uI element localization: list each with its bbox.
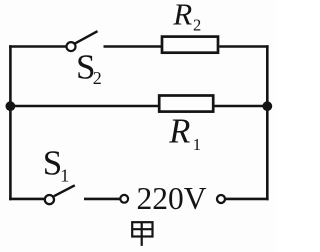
switch S1 lever [54,185,75,196]
source right terminal [217,195,225,203]
label jia (caption) drawn strokes [132,222,152,246]
node right junction [262,101,272,111]
wire top left segment [9,45,66,48]
wire bottom left segment [9,198,45,201]
resistor R1 box [159,96,213,112]
wire right vertical [266,45,269,200]
wire middle right segment [214,105,269,108]
wire top right segment [219,45,268,48]
switch S2 pivot circle [67,42,76,51]
source left terminal [120,195,128,203]
svg-text:2: 2 [193,15,201,34]
svg-text:2: 2 [93,68,102,88]
switch S1 pivot circle [45,195,54,204]
svg-text:1: 1 [193,135,202,154]
svg-text:1: 1 [60,165,69,185]
node left junction [5,101,15,111]
svg-text:R: R [168,113,190,151]
wire middle left segment [9,105,158,108]
svg-text:220V: 220V [137,181,207,216]
wire bottom right segment [225,198,268,201]
wire left vertical [9,45,12,200]
switch S2 lever [75,31,98,44]
svg-text:R: R [172,0,192,32]
wire bottom middle segment [84,198,120,201]
resistor R2 box [162,37,218,53]
wire top middle segment [104,45,162,48]
